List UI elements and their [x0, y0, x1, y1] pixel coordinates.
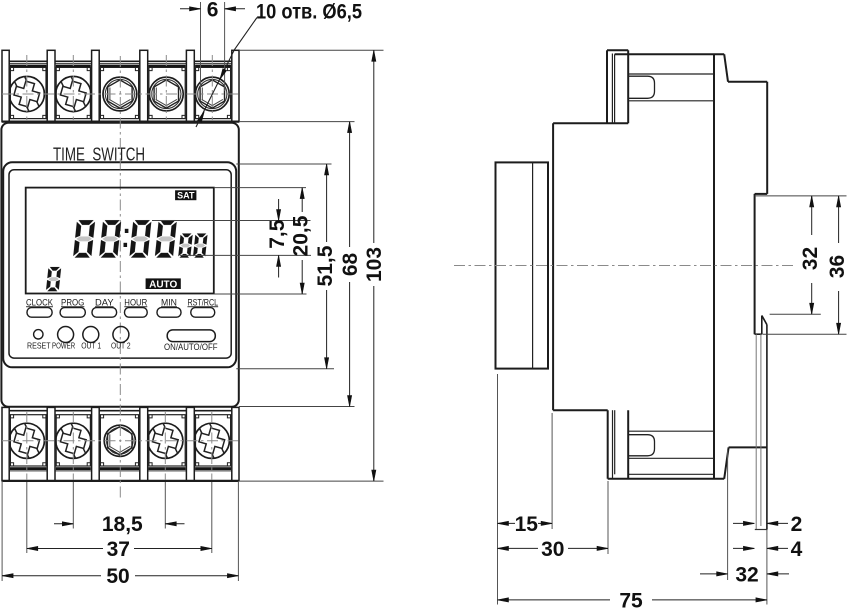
- svg-text:32: 32: [735, 563, 758, 586]
- svg-text:36: 36: [826, 255, 848, 278]
- svg-text:RESET: RESET: [27, 341, 51, 350]
- svg-text:CLOCK: CLOCK: [26, 297, 53, 307]
- svg-text:MIN: MIN: [161, 297, 177, 307]
- svg-text:6: 6: [207, 0, 219, 22]
- svg-text:TIME SWITCH: TIME SWITCH: [53, 144, 145, 165]
- svg-text:OUT 1: OUT 1: [81, 341, 101, 350]
- svg-text:4: 4: [791, 538, 803, 561]
- svg-text:51,5: 51,5: [314, 245, 337, 286]
- svg-text:POWER: POWER: [52, 341, 75, 350]
- svg-text:AUTO: AUTO: [149, 280, 177, 291]
- svg-text:32: 32: [799, 247, 822, 270]
- svg-text:OUT 2: OUT 2: [111, 341, 131, 350]
- svg-text:SAT: SAT: [177, 190, 195, 200]
- svg-text:ON/AUTO/OFF: ON/AUTO/OFF: [164, 342, 218, 352]
- svg-text:DAY: DAY: [95, 297, 114, 307]
- svg-text:15: 15: [515, 513, 539, 536]
- svg-text:103: 103: [363, 247, 386, 282]
- svg-text:2: 2: [791, 513, 803, 536]
- svg-text:50: 50: [106, 565, 129, 588]
- svg-text:68: 68: [339, 253, 362, 277]
- svg-text:HOUR: HOUR: [124, 297, 147, 307]
- svg-text:PROG: PROG: [61, 297, 84, 307]
- svg-text:RST/RCL: RST/RCL: [187, 297, 218, 307]
- svg-text:75: 75: [619, 589, 643, 610]
- svg-text:37: 37: [107, 538, 130, 561]
- svg-text:7,5: 7,5: [266, 219, 289, 249]
- svg-text:10 отв. Ø6,5: 10 отв. Ø6,5: [256, 1, 362, 24]
- svg-text:18,5: 18,5: [102, 513, 143, 536]
- svg-text:20,5: 20,5: [289, 215, 312, 256]
- svg-text:30: 30: [541, 538, 564, 561]
